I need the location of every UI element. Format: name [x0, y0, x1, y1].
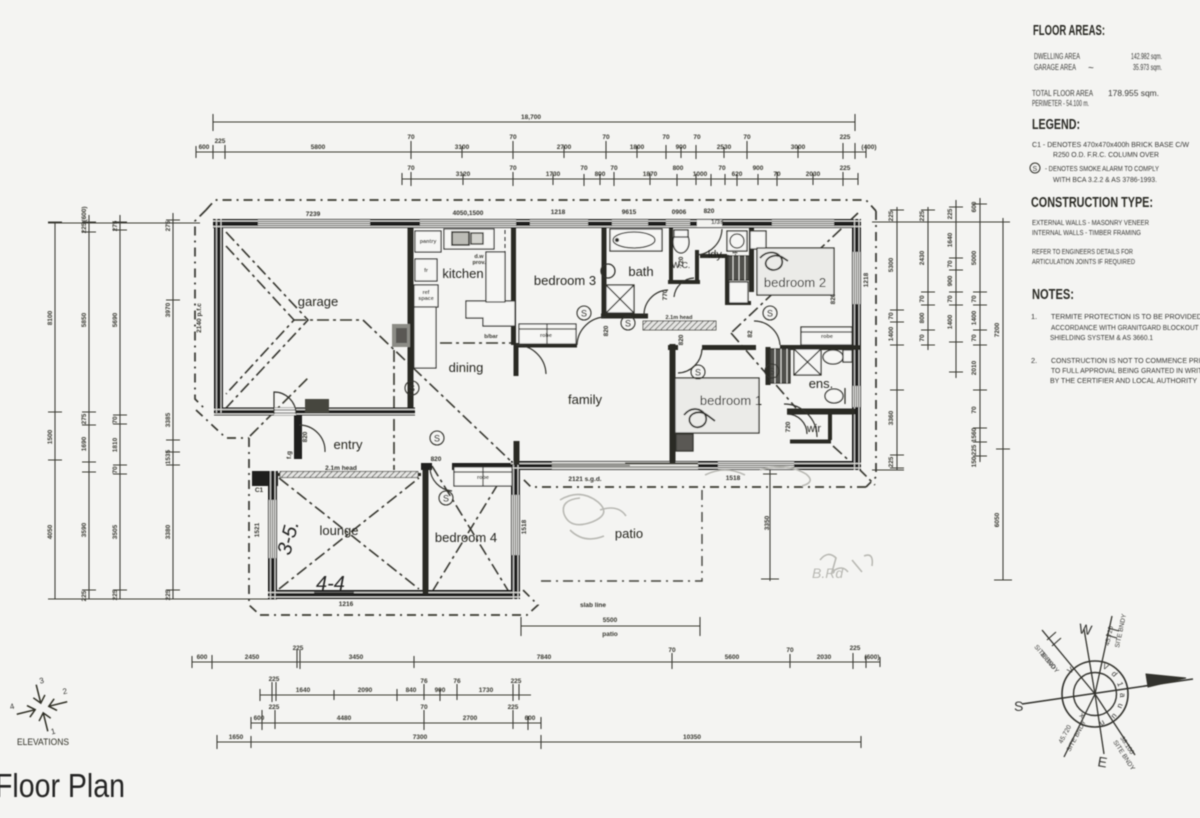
dim row 2 labels: [199, 134, 877, 151]
bottom wall right section: [511, 461, 861, 470]
bed2 south wall: [780, 345, 861, 350]
bed1 door arc: [678, 349, 702, 373]
small labels: [280, 333, 833, 609]
eave garage bottom & porch: [196, 410, 249, 438]
left arrow pointing right: [15, 704, 36, 720]
dining/kitchen dashed line: [417, 342, 516, 344]
lounge window on left wall: [269, 500, 276, 558]
bath south wall: [601, 314, 648, 319]
eave bottom of lounge block: [260, 588, 538, 615]
bath/wc wall: [669, 228, 673, 282]
bed2 window: [772, 220, 834, 227]
SW ray: [1064, 694, 1095, 757]
bed2 door arc: [754, 321, 780, 345]
ens door arc: [784, 404, 817, 437]
linen dark cabinet: [770, 349, 790, 383]
wc/ldy south walls: [668, 280, 700, 284]
family sgd west jamb stub: [514, 441, 520, 465]
dim row 2: [196, 141, 866, 159]
dim row 3: [402, 172, 858, 186]
window size labels on top wall: [196, 208, 870, 608]
handwritten annotations: [274, 518, 845, 595]
ens window right wall: [853, 386, 860, 407]
vertical valley at entry: [393, 350, 395, 470]
garage window 7239: [258, 220, 370, 227]
lounge X: [279, 478, 419, 589]
bath window: [612, 220, 648, 227]
ldy/bed2 wall: [749, 228, 754, 292]
eave top: [206, 200, 876, 211]
hall beam 2.1m head: [643, 315, 716, 330]
bedroom4 top wall segments: [421, 463, 520, 470]
bedroom4 X: [432, 466, 509, 592]
kitchen/bed3 wall: [511, 228, 516, 345]
left dim col A: [48, 222, 62, 599]
E ray down: [1095, 694, 1104, 754]
door width labels: [255, 244, 837, 494]
diagonal to ens: [731, 333, 796, 408]
laundry fixtures: [727, 231, 766, 303]
kitchen: [414, 229, 515, 368]
shower bath: [606, 285, 634, 313]
kitchen window 4050,1500: [420, 220, 516, 227]
wc/ldy wall: [695, 250, 699, 282]
NW ray: [1042, 630, 1095, 694]
bed1 west wall: [670, 344, 676, 463]
garage hip chevron outer: [226, 232, 308, 408]
patio dim: [521, 617, 700, 636]
wir door arc: [787, 414, 807, 434]
garage ridge: [294, 319, 363, 321]
garage/kitchen wall: [408, 228, 414, 408]
entry front door arc: [299, 425, 325, 452]
left dim col C: [113, 215, 127, 599]
bed4 door arc: [430, 468, 452, 491]
island bench L: [466, 301, 515, 326]
tie line top and bottom: [48, 223, 277, 599]
linen cupboard walls: [725, 255, 729, 305]
bath fixtures: [601, 229, 689, 313]
bed2 furniture: [757, 248, 852, 345]
bottom arrow pointing up: [37, 711, 53, 732]
diagonal top-right corner: [731, 213, 858, 333]
eave right: [866, 211, 876, 487]
bed3 window 1218: [530, 220, 588, 227]
wall inner white lines (cavity): [213, 219, 861, 599]
fridge: [415, 259, 437, 281]
entry west wall: [294, 415, 302, 459]
wc toilet: [673, 231, 689, 253]
eave bottom right / patio top: [521, 477, 866, 487]
porch pier C1: [252, 471, 278, 486]
lounge left wall: [268, 471, 277, 599]
garage bottom wall: [214, 408, 415, 416]
sink bench: [444, 229, 494, 249]
lounge top wall 2.1m head: [277, 473, 421, 476]
ens/wir wall: [787, 409, 855, 415]
dim row overall 18700: [213, 114, 855, 131]
left dim col B: [82, 215, 96, 599]
bottom row 1: [192, 650, 880, 669]
eave left of lounge: [249, 438, 260, 615]
family window 1518: [718, 462, 794, 469]
hall arcs near family: [516, 345, 546, 374]
eave corner tie bottom-right: [858, 468, 875, 485]
garage hip chevron inner: [226, 246, 294, 394]
wc door arc: [674, 278, 694, 297]
bottom dim labels: [197, 617, 880, 741]
patio dim vertical 3350: [761, 470, 779, 581]
robe bed2: [801, 327, 852, 345]
north arrow long: [1022, 679, 1193, 704]
shower: [794, 349, 821, 375]
bed3 robe: [519, 324, 576, 344]
faint pencil sketches in patio: [560, 467, 872, 572]
bed4 window on right wall 1518: [512, 495, 519, 555]
bottom row 2: [260, 682, 531, 702]
right wall window 1218 (bed2 side): [853, 252, 860, 304]
dim row 1 label: [521, 114, 541, 121]
main diagonal dining: [363, 320, 517, 467]
ref space: [414, 285, 438, 307]
garage internal door arc: [274, 392, 296, 414]
bottom row 3: [251, 710, 541, 730]
lounge/bed4 divider: [423, 470, 429, 594]
wir corner diagonal: [833, 446, 855, 466]
eave left of garage: [195, 210, 206, 410]
wir step walls: [828, 414, 832, 440]
basin bath: [601, 264, 615, 278]
W ray up: [1084, 629, 1095, 694]
basin: [825, 389, 843, 403]
toilet: [823, 350, 843, 364]
ens fixtures: [770, 349, 852, 404]
garage door opening in bottom wall: [274, 408, 296, 415]
right arrow pointing left: [47, 696, 68, 712]
top arrow pointing down: [30, 683, 46, 704]
right wall: [852, 219, 861, 470]
wc window 0906: [666, 220, 690, 227]
bed1 furniture: [675, 378, 759, 451]
family sgd 2121: [552, 462, 698, 469]
bedroom4 right wall: [511, 461, 520, 599]
bed4 robe: [454, 467, 512, 486]
family north wall / bed1 top: [668, 345, 756, 350]
dw dashes: [504, 230, 506, 298]
family top-left jamb + wall under bed3 robe: [514, 343, 519, 376]
west bench: [414, 307, 436, 368]
bed3/bath wall: [602, 228, 607, 318]
bed1/ens divider: [766, 347, 771, 385]
linen dark: [728, 256, 749, 280]
pantry: [415, 231, 441, 252]
ldy door 820: [697, 220, 722, 227]
top wall: [213, 219, 861, 228]
left dim labels (rotated): [47, 206, 172, 601]
ldy door arc: [696, 229, 722, 255]
NE ray: [1095, 616, 1112, 694]
bed3 door arc: [577, 317, 606, 345]
bath door arc: [644, 290, 668, 315]
left dim col D: [166, 213, 180, 599]
SE ray: [1095, 694, 1135, 755]
bottom row 4: [217, 735, 861, 749]
lounge bottom wall: [268, 590, 520, 599]
porch valley diagonal: [250, 378, 308, 436]
bath tub: [610, 229, 662, 251]
garage meter box & step: [305, 324, 410, 413]
right dim labels (rotated): [888, 201, 1001, 527]
garage left wall: [214, 219, 223, 413]
dim row 3 labels: [407, 165, 850, 178]
